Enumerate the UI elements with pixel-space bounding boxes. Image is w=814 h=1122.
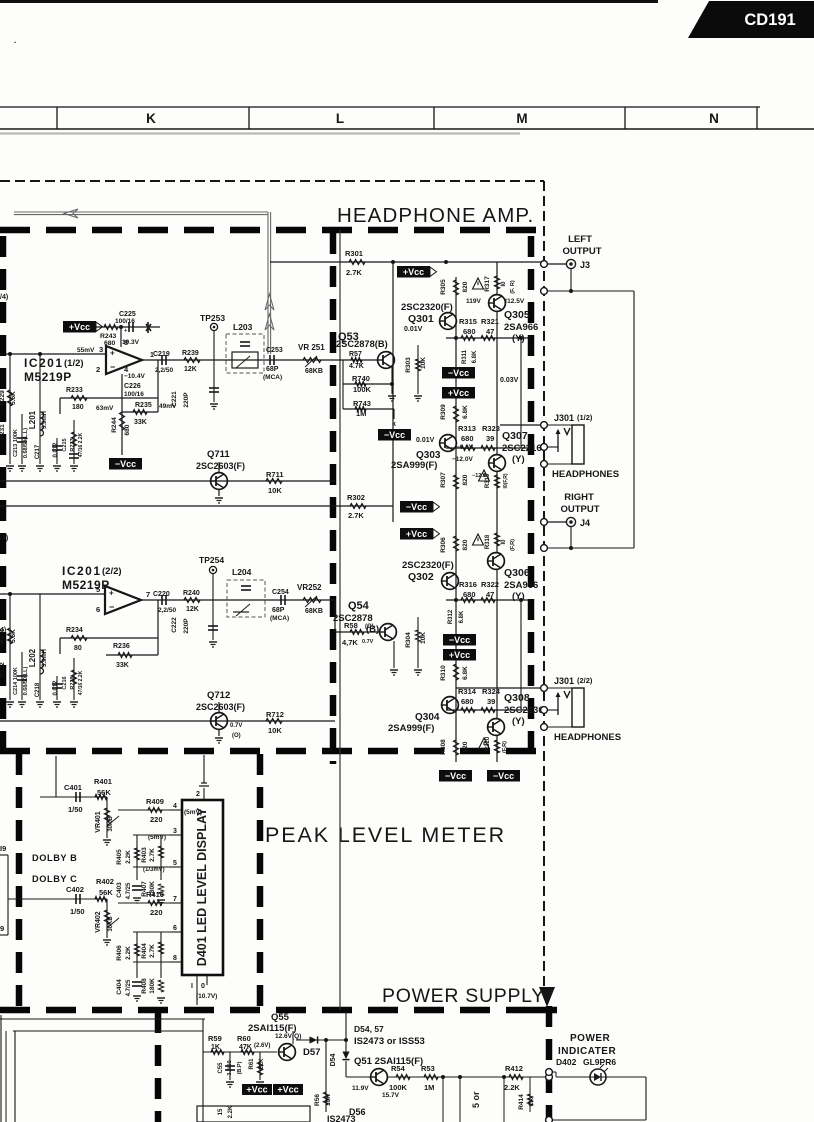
- svg-text:119V: 119V: [466, 298, 481, 305]
- svg-text:68P: 68P: [272, 607, 285, 614]
- svg-text:CD191: CD191: [744, 11, 795, 29]
- svg-text:22K: 22K: [259, 1058, 265, 1070]
- svg-text:Q307: Q307: [502, 430, 528, 442]
- svg-text:0.03V: 0.03V: [500, 377, 519, 384]
- svg-text:R318: R318: [485, 534, 491, 549]
- svg-text:220P: 220P: [183, 392, 190, 408]
- svg-text:220P: 220P: [183, 618, 190, 634]
- svg-text:(10.7V): (10.7V): [196, 993, 217, 1000]
- svg-text:D402: D402: [556, 1057, 577, 1067]
- svg-text:680: 680: [124, 424, 131, 435]
- svg-text:R303: R303: [405, 357, 412, 373]
- svg-text:1/50: 1/50: [70, 907, 85, 916]
- svg-text:15.7V: 15.7V: [382, 1092, 400, 1099]
- svg-text:−: −: [110, 362, 115, 372]
- svg-text:D401 LED LEVEL DISPLAY: D401 LED LEVEL DISPLAY: [195, 807, 209, 966]
- svg-text:−Vcc: −Vcc: [448, 368, 469, 378]
- svg-text:2: 2: [196, 791, 200, 798]
- svg-text:5: 5: [96, 585, 100, 594]
- svg-text:100/16: 100/16: [115, 318, 135, 325]
- svg-text:1/50: 1/50: [68, 805, 83, 814]
- svg-text:12K: 12K: [186, 606, 199, 613]
- svg-text:4): 4): [0, 627, 6, 634]
- svg-text:47: 47: [486, 590, 494, 599]
- svg-text:POWER: POWER: [570, 1033, 611, 1044]
- svg-text:(Y): (Y): [512, 716, 525, 727]
- svg-text:C403: C403: [116, 882, 123, 898]
- svg-text:47/16 2.2K: 47/16 2.2K: [78, 432, 84, 457]
- svg-text:C219: C219: [153, 351, 170, 358]
- svg-text:R316: R316: [459, 580, 477, 589]
- svg-text:J3: J3: [580, 260, 590, 270]
- svg-text:R61: R61: [249, 1058, 255, 1070]
- svg-text:2SC2878(B): 2SC2878(B): [336, 339, 388, 349]
- svg-text:R53: R53: [421, 1064, 435, 1073]
- svg-text:0.7V: 0.7V: [230, 723, 242, 729]
- svg-text:5: 5: [173, 860, 177, 867]
- svg-text:7: 7: [146, 590, 150, 599]
- svg-text:C404: C404: [116, 979, 123, 995]
- svg-text:2SC2603(F): 2SC2603(F): [196, 702, 245, 712]
- svg-text:R743: R743: [353, 399, 371, 408]
- svg-text:I0: I0: [501, 281, 507, 287]
- svg-text:30KB: 30KB: [108, 916, 114, 932]
- svg-text:2SC2320(F): 2SC2320(F): [402, 560, 454, 571]
- svg-text:R229: R229: [0, 390, 6, 406]
- svg-text:Q305: Q305: [504, 309, 530, 321]
- svg-text:C225: C225: [119, 311, 136, 318]
- svg-text:R324: R324: [482, 687, 501, 696]
- svg-text:2: 2: [96, 365, 100, 374]
- svg-text:I: I: [191, 983, 193, 990]
- svg-text:2.7K: 2.7K: [149, 944, 156, 958]
- svg-text:·: ·: [14, 38, 17, 47]
- svg-text:−Vcc: −Vcc: [493, 771, 514, 781]
- svg-text:(5mV): (5mV): [184, 809, 202, 816]
- svg-text:R740: R740: [352, 374, 370, 383]
- svg-text:R305: R305: [440, 279, 447, 295]
- svg-text:10K: 10K: [268, 726, 282, 735]
- svg-text:1K: 1K: [211, 1044, 220, 1051]
- svg-text:R322: R322: [481, 580, 499, 589]
- svg-text:(5mV): (5mV): [148, 834, 166, 841]
- svg-text:2,2/50: 2,2/50: [158, 607, 176, 614]
- svg-text:(Y): (Y): [512, 333, 525, 344]
- svg-text:2.7K: 2.7K: [346, 268, 362, 277]
- svg-text:C253: C253: [266, 347, 283, 354]
- svg-text:(O): (O): [365, 624, 374, 630]
- svg-text:15: 15: [218, 1108, 224, 1115]
- svg-text:(MCA): (MCA): [263, 374, 282, 381]
- svg-text:+Vcc: +Vcc: [69, 322, 90, 332]
- svg-text:D57: D57: [303, 1047, 320, 1058]
- svg-text:R243: R243: [100, 333, 116, 340]
- svg-text:−Vcc: −Vcc: [384, 430, 405, 440]
- svg-text:R302: R302: [347, 493, 365, 502]
- svg-text:(F. R): (F. R): [510, 280, 516, 294]
- svg-text:3: 3: [99, 345, 103, 354]
- svg-text:−Vcc: −Vcc: [445, 771, 466, 781]
- svg-text:+Vcc: +Vcc: [406, 529, 427, 539]
- svg-text:OUTPUT: OUTPUT: [560, 504, 599, 515]
- svg-text:2.2K: 2.2K: [125, 850, 132, 864]
- svg-text:3.9mH: 3.9mH: [42, 411, 48, 429]
- svg-text:Q54: Q54: [348, 600, 370, 612]
- svg-text:R240: R240: [183, 590, 200, 597]
- svg-text:820: 820: [462, 281, 469, 292]
- svg-text:33K: 33K: [116, 662, 129, 669]
- svg-text:4.7/25: 4.7/25: [126, 882, 132, 899]
- svg-text:30KB: 30KB: [108, 816, 114, 832]
- svg-text:R232: R232: [0, 662, 6, 678]
- svg-text:68KB: 68KB: [305, 608, 323, 615]
- svg-text:R315: R315: [459, 317, 477, 326]
- svg-text:220: 220: [150, 908, 163, 917]
- svg-text:2SC2236: 2SC2236: [504, 705, 544, 716]
- svg-text:68P: 68P: [266, 366, 279, 373]
- svg-text:R234: R234: [66, 627, 83, 634]
- svg-text:Q301: Q301: [408, 313, 434, 325]
- svg-text:R712: R712: [266, 710, 284, 719]
- svg-text:R301: R301: [345, 249, 363, 258]
- svg-text:2.2K: 2.2K: [228, 1105, 234, 1118]
- svg-text:−0.6V: −0.6V: [456, 444, 474, 451]
- svg-text:2SA966: 2SA966: [504, 580, 538, 591]
- svg-text:R323: R323: [482, 424, 500, 433]
- svg-text:3.3/50: 3.3/50: [227, 1060, 233, 1075]
- svg-text:RIGHT: RIGHT: [564, 492, 594, 503]
- svg-text:63mV: 63mV: [96, 405, 114, 412]
- svg-text:56K: 56K: [99, 888, 113, 897]
- svg-text:(F,R): (F,R): [502, 741, 508, 753]
- svg-text:L203: L203: [233, 322, 253, 332]
- svg-text:Q304: Q304: [415, 712, 440, 723]
- svg-text:+Vcc: +Vcc: [449, 650, 470, 660]
- svg-text:100K: 100K: [389, 1083, 408, 1092]
- svg-text:R60: R60: [237, 1034, 251, 1043]
- svg-text:R412: R412: [505, 1064, 523, 1073]
- svg-text:C226: C226: [124, 383, 141, 390]
- svg-text:R304: R304: [405, 632, 412, 648]
- svg-text:2,2/50: 2,2/50: [155, 367, 173, 374]
- svg-text:INDICATER: INDICATER: [558, 1046, 616, 1057]
- svg-text:HEADPHONE AMP.: HEADPHONE AMP.: [337, 204, 534, 227]
- svg-text:0.01V: 0.01V: [416, 437, 435, 444]
- svg-text:R307: R307: [440, 472, 447, 488]
- svg-text:0.012: 0.012: [53, 680, 59, 696]
- svg-text:R308: R308: [440, 739, 447, 755]
- svg-text:−Vcc: −Vcc: [449, 635, 470, 645]
- svg-text:2SA966: 2SA966: [504, 322, 538, 333]
- svg-text:TP254: TP254: [199, 555, 224, 565]
- svg-text:Q302: Q302: [408, 571, 434, 583]
- svg-text:VR401: VR401: [95, 811, 102, 833]
- svg-text:C401: C401: [64, 783, 82, 792]
- svg-text:(1/3mV): (1/3mV): [143, 867, 165, 873]
- svg-text:0: 0: [201, 983, 205, 990]
- svg-text:C217: C217: [35, 444, 41, 459]
- svg-text:R401: R401: [94, 777, 112, 786]
- svg-text:M: M: [516, 111, 527, 126]
- svg-text:R237: R237: [70, 438, 76, 451]
- svg-text:R59: R59: [208, 1034, 222, 1043]
- svg-text:(MCA): (MCA): [270, 615, 289, 622]
- svg-text:VR252: VR252: [297, 583, 322, 592]
- svg-text:10.3V: 10.3V: [122, 339, 140, 346]
- svg-text:D54: D54: [330, 1053, 337, 1066]
- svg-text:0.01V: 0.01V: [404, 326, 423, 333]
- svg-text:(1/2): (1/2): [64, 358, 84, 369]
- svg-text:R317: R317: [484, 276, 491, 292]
- svg-text:C213 100K: C213 100K: [13, 429, 19, 457]
- svg-text:R410: R410: [146, 890, 164, 899]
- svg-text:10K: 10K: [420, 632, 427, 644]
- svg-text:+Vcc: +Vcc: [246, 1084, 267, 1094]
- svg-text:/4): /4): [0, 294, 8, 301]
- svg-text:R306: R306: [440, 537, 447, 553]
- svg-text:C220: C220: [153, 591, 170, 598]
- svg-text:R313: R313: [458, 424, 476, 433]
- svg-text:39: 39: [486, 434, 494, 443]
- svg-text:1M: 1M: [356, 409, 366, 418]
- svg-text:(2/2): (2/2): [577, 676, 593, 685]
- svg-text:(O): (O): [232, 733, 241, 739]
- svg-text:OUTPUT: OUTPUT: [562, 246, 601, 257]
- svg-text:J4: J4: [580, 518, 590, 528]
- svg-text:2.7K: 2.7K: [149, 848, 156, 862]
- svg-text:4,7K: 4,7K: [342, 638, 358, 647]
- svg-text:5 or: 5 or: [471, 1091, 481, 1108]
- svg-text:2.7K: 2.7K: [348, 511, 364, 520]
- svg-text:−Vcc: −Vcc: [115, 459, 136, 469]
- svg-text:Q712: Q712: [207, 690, 230, 701]
- svg-text:6: 6: [173, 925, 177, 932]
- svg-text:5.6K: 5.6K: [10, 391, 17, 405]
- svg-text:C402: C402: [66, 885, 84, 894]
- svg-text:9: 9: [0, 924, 4, 933]
- svg-text:680: 680: [461, 434, 474, 443]
- svg-text:R408: R408: [141, 978, 148, 994]
- svg-text:6.8K: 6.8K: [462, 666, 469, 680]
- svg-text:R403: R403: [141, 847, 148, 863]
- svg-text:11.9V: 11.9V: [352, 1085, 369, 1092]
- svg-text:−: −: [109, 602, 114, 612]
- svg-text:R233: R233: [66, 387, 83, 394]
- svg-text:100K: 100K: [353, 385, 372, 394]
- svg-text:R321: R321: [481, 317, 499, 326]
- svg-text:+: +: [110, 349, 115, 358]
- svg-text:R54: R54: [391, 1064, 406, 1073]
- svg-text:Q308: Q308: [504, 692, 530, 704]
- svg-text:47K: 47K: [239, 1044, 252, 1051]
- svg-text:L202: L202: [28, 648, 37, 667]
- svg-text:4.7K: 4.7K: [349, 363, 364, 370]
- svg-text:R406: R406: [116, 945, 123, 961]
- svg-text:C254: C254: [272, 589, 289, 596]
- svg-text:/4): /4): [0, 535, 8, 542]
- svg-text:3.9mH: 3.9mH: [42, 649, 48, 667]
- svg-text:100/16: 100/16: [124, 391, 144, 398]
- svg-text:R320: R320: [485, 736, 491, 751]
- svg-text:12.6V(Q): 12.6V(Q): [275, 1033, 301, 1040]
- svg-text:2SA999(F): 2SA999(F): [391, 460, 437, 471]
- svg-text:L201: L201: [28, 410, 37, 429]
- svg-text:−10.4V: −10.4V: [124, 373, 145, 380]
- svg-text:820: 820: [462, 539, 469, 550]
- svg-text:+Vcc: +Vcc: [448, 388, 469, 398]
- svg-text:10K: 10K: [420, 357, 427, 369]
- svg-text:C218: C218: [35, 682, 41, 697]
- svg-text:R309: R309: [440, 404, 447, 420]
- svg-text:2SA999(F): 2SA999(F): [388, 723, 434, 734]
- svg-text:+Vcc: +Vcc: [403, 267, 424, 277]
- svg-text:R405: R405: [116, 849, 123, 865]
- svg-text:3: 3: [173, 828, 177, 835]
- svg-text:2.2K: 2.2K: [504, 1083, 520, 1092]
- svg-text:IS2473 or ISS53: IS2473 or ISS53: [354, 1036, 425, 1047]
- svg-text:6.8K: 6.8K: [462, 405, 469, 419]
- svg-text:−Vcc: −Vcc: [406, 502, 427, 512]
- svg-text:M5219P: M5219P: [62, 578, 110, 592]
- svg-text:1M: 1M: [424, 1083, 434, 1092]
- svg-text:820: 820: [462, 474, 469, 485]
- svg-text:(B.P): (B.P): [237, 1061, 243, 1074]
- svg-text:C215: C215: [62, 438, 68, 451]
- svg-text:R409: R409: [146, 797, 164, 806]
- svg-text:R312: R312: [448, 609, 454, 624]
- svg-text:R238: R238: [70, 676, 76, 689]
- svg-text:(2/2): (2/2): [102, 566, 122, 577]
- svg-text:47/16 2.2K: 47/16 2.2K: [78, 670, 84, 695]
- svg-text:10K: 10K: [268, 486, 282, 495]
- svg-text:+: +: [124, 328, 127, 334]
- svg-text:(Y): (Y): [512, 454, 525, 465]
- svg-text:R711: R711: [266, 470, 284, 479]
- svg-text:33K: 33K: [134, 419, 147, 426]
- svg-text:−12.6: −12.6: [472, 473, 486, 479]
- svg-text:L204: L204: [232, 567, 252, 577]
- svg-text:R56: R56: [314, 1094, 321, 1106]
- svg-text:2.2K: 2.2K: [125, 946, 132, 960]
- svg-text:L: L: [336, 111, 344, 126]
- svg-text:68KB: 68KB: [305, 368, 323, 375]
- svg-text:C216: C216: [62, 676, 68, 689]
- svg-text:N: N: [709, 111, 719, 126]
- svg-text:HEADPHONES: HEADPHONES: [552, 469, 619, 480]
- svg-text:TP253: TP253: [200, 313, 225, 323]
- svg-text:(Y): (Y): [512, 591, 525, 602]
- svg-text:12K: 12K: [184, 366, 197, 373]
- svg-text:GL9PR6: GL9PR6: [583, 1057, 616, 1067]
- svg-text:R402: R402: [96, 877, 114, 886]
- svg-text:(2.6V): (2.6V): [254, 1043, 270, 1049]
- svg-text:IC201: IC201: [62, 564, 102, 578]
- svg-text:(1/2): (1/2): [577, 413, 593, 422]
- svg-text:680: 680: [463, 327, 476, 336]
- svg-text:LEFT: LEFT: [568, 234, 592, 245]
- svg-text:IC201: IC201: [24, 356, 64, 370]
- svg-text:Q55: Q55: [271, 1012, 290, 1023]
- svg-text:7: 7: [173, 896, 177, 903]
- svg-text:J301: J301: [554, 676, 574, 686]
- svg-text:C55: C55: [218, 1062, 224, 1074]
- svg-text:J301: J301: [554, 413, 574, 423]
- svg-text:M5219P: M5219P: [24, 370, 72, 384]
- svg-text:R236: R236: [113, 643, 130, 650]
- svg-text:680: 680: [104, 340, 116, 347]
- svg-text:4.7/25: 4.7/25: [126, 979, 132, 996]
- svg-text:C214 100K: C214 100K: [13, 667, 19, 695]
- svg-text:6: 6: [96, 605, 100, 614]
- svg-text:Q711: Q711: [207, 449, 230, 460]
- svg-text:820: 820: [462, 741, 469, 752]
- svg-text:47: 47: [486, 327, 494, 336]
- svg-text:D54, 57: D54, 57: [354, 1024, 384, 1034]
- svg-text:VR 251: VR 251: [298, 343, 325, 352]
- svg-text:680: 680: [461, 697, 474, 706]
- svg-text:2SC2603(F): 2SC2603(F): [196, 461, 245, 471]
- svg-text:55mV: 55mV: [77, 347, 95, 354]
- svg-text:R239: R239: [182, 350, 199, 357]
- svg-text:0.68/50(L.L): 0.68/50(L.L): [23, 428, 29, 458]
- svg-text:5.6K: 5.6K: [10, 629, 17, 643]
- svg-text:R57: R57: [349, 351, 362, 358]
- svg-text:R231: R231: [0, 424, 6, 440]
- svg-text:R310: R310: [440, 665, 447, 681]
- svg-text:C221: C221: [171, 391, 178, 407]
- svg-text:0.7V: 0.7V: [362, 639, 374, 645]
- svg-text:2SC2320(F): 2SC2320(F): [401, 302, 453, 313]
- svg-text:220: 220: [150, 815, 163, 824]
- svg-text:10K: 10K: [325, 1094, 332, 1106]
- svg-text:+Vcc: +Vcc: [277, 1084, 298, 1094]
- svg-text:DOLBY B: DOLBY B: [32, 853, 77, 863]
- svg-text:0.012: 0.012: [53, 442, 59, 458]
- svg-text:DOLBY C: DOLBY C: [32, 874, 77, 884]
- svg-text:8: 8: [173, 955, 177, 962]
- svg-text:39: 39: [487, 697, 495, 706]
- svg-text:VR402: VR402: [95, 911, 102, 933]
- svg-text:1K: 1K: [528, 1098, 535, 1107]
- svg-text:+: +: [109, 589, 114, 598]
- svg-text:6.8K: 6.8K: [459, 610, 465, 623]
- svg-text:180: 180: [72, 404, 84, 411]
- svg-text:I0: I0: [501, 539, 507, 545]
- svg-text:0.68/50(LL): 0.68/50(LL): [23, 666, 29, 695]
- svg-text:C222: C222: [171, 617, 178, 633]
- svg-text:IS2473: IS2473: [327, 1114, 356, 1122]
- svg-text:I0(F,R): I0(F,R): [503, 473, 509, 488]
- svg-text:6.8K: 6.8K: [472, 350, 478, 363]
- svg-text:4: 4: [173, 803, 177, 810]
- svg-text:PEAK LEVEL METER: PEAK LEVEL METER: [265, 823, 506, 847]
- svg-text:R311: R311: [462, 349, 468, 364]
- svg-text:K: K: [146, 111, 156, 126]
- svg-text:R404: R404: [141, 943, 148, 959]
- svg-text:k: k: [392, 421, 396, 428]
- svg-text:80: 80: [74, 645, 82, 652]
- svg-text:HEADPHONES: HEADPHONES: [554, 732, 621, 743]
- svg-text:R314: R314: [458, 687, 477, 696]
- svg-text:2SC2216: 2SC2216: [502, 443, 542, 454]
- svg-text:(F,R): (F,R): [510, 539, 516, 551]
- svg-text:180K: 180K: [149, 978, 156, 994]
- svg-text:!12.5V: !12.5V: [505, 298, 525, 305]
- svg-text:Q51 2SAI115(F): Q51 2SAI115(F): [354, 1056, 423, 1067]
- svg-text:R414: R414: [518, 1094, 525, 1110]
- svg-text:R235: R235: [135, 402, 152, 409]
- svg-text:R244: R244: [111, 417, 118, 433]
